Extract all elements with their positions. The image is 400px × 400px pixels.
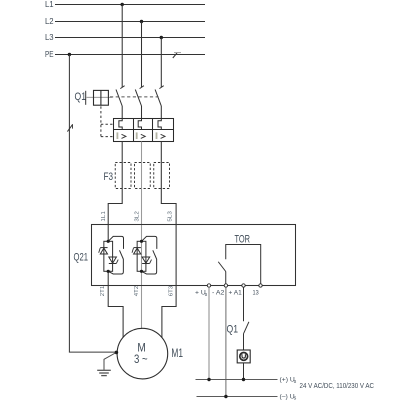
svg-text:3L2: 3L2 <box>135 211 141 221</box>
svg-text:PE: PE <box>45 49 54 59</box>
svg-text:+ A1: + A1 <box>229 290 242 297</box>
svg-text:L2: L2 <box>45 16 54 26</box>
svg-text:M1: M1 <box>171 346 183 360</box>
svg-text:5L3: 5L3 <box>167 210 173 221</box>
svg-text:L1: L1 <box>45 0 54 9</box>
svg-text:(+) U: (+) U <box>280 377 295 384</box>
svg-text:TOR: TOR <box>235 234 251 246</box>
svg-text:3 ~: 3 ~ <box>134 352 148 366</box>
svg-text:1L1: 1L1 <box>101 211 107 221</box>
svg-text:(–) U: (–) U <box>280 393 295 400</box>
svg-text:2T1: 2T1 <box>100 286 106 296</box>
svg-text:- A2: - A2 <box>212 290 225 297</box>
svg-text:Q21: Q21 <box>74 252 89 264</box>
svg-text:Q1: Q1 <box>75 91 87 103</box>
svg-text:L3: L3 <box>45 32 54 42</box>
svg-text:4T2: 4T2 <box>134 286 140 296</box>
svg-text:6T3: 6T3 <box>169 285 175 296</box>
svg-text:13: 13 <box>253 290 259 297</box>
svg-text:F3: F3 <box>104 171 114 183</box>
svg-text:24 V AC/DC, 110/230 V AC: 24 V AC/DC, 110/230 V AC <box>300 383 375 390</box>
svg-text:Q1: Q1 <box>227 324 239 336</box>
